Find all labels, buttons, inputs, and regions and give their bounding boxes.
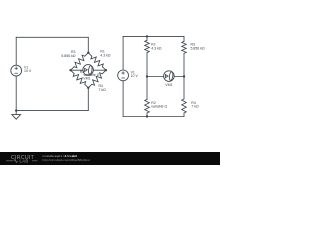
resistor R1 (bridge top-right arm) [91, 56, 103, 66]
wire: left circuit top rail [16, 36, 88, 38]
junction: ground node [15, 109, 17, 111]
svg-text:LAB: LAB [20, 159, 29, 164]
wire: bridge top-right leads [88, 53, 106, 70]
junction: bridge left node [69, 69, 71, 71]
resistor R4 (bridge bottom-right arm) [92, 73, 103, 85]
resistor R3 5.856 k (ladder) [182, 41, 187, 53]
voltmeter VM1 (ladder) [164, 71, 175, 82]
junction: middle branch top [146, 35, 148, 37]
label R1 4.3 k (bridge) [100, 50, 111, 58]
junction: middle branch mid [146, 75, 148, 77]
wire: right circuit bottom rail [123, 116, 184, 118]
wire: left circuit bottom rail [16, 110, 88, 112]
svg-text:5.856 kΩ: 5.856 kΩ [191, 46, 205, 50]
svg-text:10 V: 10 V [131, 74, 139, 78]
wire: right branch top lead [183, 36, 185, 41]
voltmeter VM1 (bridge) [83, 65, 94, 76]
wire: bridge bottom-right leads [88, 70, 106, 88]
wire: middle branch top lead [146, 36, 148, 40]
wire: right branch bottom lead [183, 113, 185, 117]
label R2 variable (bridge) [80, 70, 100, 77]
voltage source V1 (left, 10 V) [11, 65, 22, 76]
label R3 5.856 k (bridge) [61, 50, 75, 58]
junction: bridge right node [105, 69, 107, 71]
wire: bridge top-left leads [71, 53, 89, 70]
wire: voltmeter link (ladder) [147, 76, 184, 78]
label R4 7 k (ladder) [191, 101, 199, 109]
wire: middle branch mid lead [146, 53, 148, 100]
resistor R3 (bridge top-left arm) [74, 55, 85, 67]
svg-text:VM1: VM1 [165, 83, 172, 87]
svg-text:4.3 kΩ: 4.3 kΩ [151, 46, 162, 50]
wire: right circuit top rail [123, 35, 184, 37]
label R2 variable (ladder) [151, 101, 167, 109]
resistor R1 4.3 k (ladder) [145, 40, 150, 52]
svg-text:5.856 kΩ: 5.856 kΩ [61, 54, 75, 58]
svg-text:VM1: VM1 [83, 77, 90, 81]
voltage source V1 (right, 10 V) [118, 70, 129, 81]
label R1 4.3 k (ladder) [151, 43, 162, 51]
label VM1 (ladder) [165, 83, 172, 87]
svg-text:variable Ω: variable Ω [151, 105, 167, 109]
svg-text:http://circuitlab.com/c6bar58r: http://circuitlab.com/c6bar58rp9cur [43, 158, 90, 162]
wire: right circuit left rail lower [122, 81, 124, 117]
label VM1 (bridge) [83, 77, 90, 81]
label R4 7 k (bridge) [99, 84, 107, 92]
wire: bridge voltmeter link [71, 69, 106, 71]
label R3 5.856 k (ladder) [191, 43, 205, 51]
resistor R2 (bridge bottom-left arm, variable) [73, 74, 86, 85]
junction: bridge bottom node [87, 87, 89, 89]
resistor R2 variable (ladder) [145, 99, 150, 113]
CircuitLab logo [6, 155, 38, 164]
resistor R4 7 k (ladder) [182, 99, 187, 113]
wire: left circuit left rail upper (V1 top lead) [15, 37, 17, 65]
wire: left circuit top drop to bridge top node [87, 37, 89, 52]
ground [12, 111, 21, 120]
svg-text:10 V: 10 V [24, 69, 32, 73]
svg-text:7 kΩ: 7 kΩ [99, 88, 107, 92]
label V1 10 V (left) [24, 65, 32, 73]
footer bar [0, 152, 220, 165]
wire: left circuit left rail lower (V1 bottom lead) [15, 76, 17, 111]
wire: right branch mid lead [183, 53, 185, 99]
junction: right branch mid [183, 75, 185, 77]
junction: bridge top node [87, 52, 89, 54]
footer title text [43, 154, 90, 162]
wire: middle branch bottom lead [146, 113, 148, 117]
label V1 10 V (right) [131, 70, 139, 78]
wire: bridge bottom node drop [87, 88, 89, 111]
wire: bridge bottom-left leads [71, 70, 89, 88]
svg-text:4.3 kΩ: 4.3 kΩ [100, 53, 111, 57]
svg-text:7 kΩ: 7 kΩ [191, 105, 199, 109]
wire: right circuit left rail upper [122, 36, 124, 70]
junction: middle branch bottom [146, 115, 148, 117]
